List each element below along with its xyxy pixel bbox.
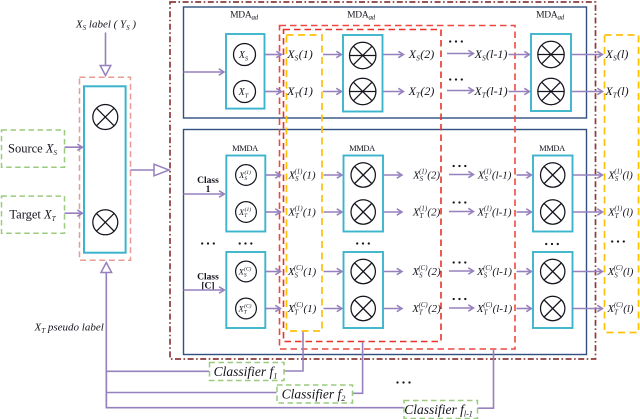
- otimes-bar operator row2: [538, 78, 564, 104]
- otimes-bar operator row1: [538, 41, 564, 67]
- arrow dots: [449, 174, 472, 176]
- svg-text:MMDA: MMDA: [232, 143, 259, 153]
- arrow to Xt(l): [571, 91, 601, 93]
- classifier f2 box: [277, 385, 353, 403]
- ellipsis: [453, 298, 455, 300]
- arrow into MMDA layer2: [324, 271, 341, 273]
- arrow to Xt(2): [383, 91, 402, 93]
- svg-text:Classifier f2: Classifier f2: [282, 386, 346, 403]
- arrow into MDA input box: [184, 71, 223, 73]
- arrow into MMDA layer-l: [517, 174, 531, 176]
- ellipsis row2: [449, 78, 451, 80]
- arrow into MMDA layer2: [324, 211, 341, 213]
- MMDA class input box: [226, 252, 265, 328]
- arrow dots to Xt(l-1): [447, 90, 472, 92]
- arrow into MMDA layer-l: [517, 211, 531, 213]
- arrow to Xt^(c)(2): [384, 308, 401, 310]
- arrow Xt(l-1) to MDA layer-l: [509, 91, 529, 93]
- ellipsis between class blocks: [239, 242, 241, 244]
- wire: yellow column down to classifier f1: [302, 332, 304, 371]
- svg-text:MMDA: MMDA: [349, 143, 376, 153]
- wire: classifier f2 to feedback bus: [106, 392, 277, 394]
- arrow: joint block to network: [130, 169, 154, 171]
- green dashed box: Target Xt: [2, 196, 65, 233]
- svg-text:XS(l): XS(l): [605, 47, 629, 62]
- arrow into MMDA layer-l: [517, 271, 531, 273]
- ellipsis between class blocks: [611, 240, 613, 242]
- red dashed box A (outer, layers 1..l-1): [280, 26, 516, 350]
- arrow dots: [449, 211, 472, 213]
- svg-text:XS(l-1): XS(l-1): [474, 47, 508, 62]
- ellipsis: [453, 261, 455, 263]
- MDA_ad layer-l box U3: [531, 34, 571, 111]
- arrow to Xs(l): [571, 54, 601, 56]
- green dashed box: Source Xs: [2, 130, 65, 167]
- otimes operator: [351, 200, 375, 224]
- MMDA layer-l box: [533, 252, 573, 328]
- svg-text:XS(C)(l-1): XS(C)(l-1): [476, 265, 512, 280]
- MDA_ad input box U1: [226, 34, 265, 109]
- otimes-bar operator row2: [350, 78, 376, 104]
- svg-text:XT(l-1): XT(l-1): [473, 84, 507, 99]
- arrow to Xs^(c)(2): [384, 174, 401, 176]
- arrow: target into joint block: [65, 212, 82, 214]
- otimes operator: [541, 296, 565, 320]
- arrow dots to Xs(l-1): [447, 53, 472, 55]
- MMDA class input box: [226, 156, 265, 232]
- ellipsis between classifiers: [396, 381, 398, 383]
- classifier fl-1 box: [404, 401, 478, 419]
- MDA_ad top sub-network box: [184, 7, 587, 118]
- ellipsis between class blocks: [356, 242, 358, 244]
- MMDA layer-l box: [533, 156, 573, 232]
- arrow into MMDA layer-l: [517, 308, 531, 310]
- svg-text:XS(1)(l-1): XS(1)(l-1): [477, 168, 512, 183]
- arrow class into input box: [184, 193, 223, 195]
- arrow: source into joint block: [65, 146, 82, 148]
- ellipsis between class blocks: [201, 242, 203, 244]
- svg-text:Classifier f1: Classifier f1: [214, 364, 278, 381]
- svg-text:XS(1): XS(1): [286, 47, 312, 62]
- arrow dots: [449, 270, 472, 272]
- outer dash-dot frame (adversarial domain box): [170, 2, 596, 359]
- svg-text:Source XS: Source XS: [8, 142, 57, 157]
- svg-text:XT(1)(l-1): XT(1)(l-1): [476, 205, 512, 220]
- otimes-bar operator row1: [350, 42, 376, 68]
- svg-text:Target XT: Target XT: [9, 208, 56, 223]
- svg-text:MMDA: MMDA: [539, 143, 566, 153]
- svg-text:XT(l): XT(l): [604, 84, 628, 99]
- arrow Xs(1) to MDA layer2: [323, 54, 340, 56]
- otimes operator: [351, 163, 375, 187]
- yellow dashed box: first-layer outputs column: [287, 35, 323, 331]
- svg-text:XT(2): XT(2): [408, 84, 435, 99]
- arrow to Xt^(c)(l): [573, 211, 601, 213]
- arrow Xs to Xs(1): [265, 54, 280, 56]
- node Xs circle: [234, 44, 256, 66]
- arrow to Xt^(c)(1): [266, 211, 280, 213]
- arrow Xs(l-1) to MDA layer-l: [509, 54, 529, 56]
- otimes operator (target): [93, 210, 118, 235]
- node Xs class circle: [236, 165, 257, 186]
- salmon dashed box around joint block: [80, 77, 131, 260]
- otimes operator: [351, 259, 375, 283]
- wire: classifier fl-1 to feedback bus: [106, 407, 404, 409]
- node Xt circle: [234, 81, 256, 103]
- arrow to Xt^(c)(l): [573, 308, 601, 310]
- otimes operator (source): [93, 105, 118, 130]
- node Xt class circle: [236, 202, 257, 223]
- arrow Xt(1) to MDA layer2: [323, 91, 340, 93]
- wire: classifier f1 to feedback bus: [106, 370, 209, 372]
- arrow into MMDA layer2: [324, 174, 341, 176]
- arrow to Xt^(c)(1): [266, 308, 280, 310]
- arrow to Xs(2): [383, 54, 402, 56]
- wire: red box A down to classifier fl-1: [493, 350, 495, 408]
- arrow: label down into joint block: [105, 33, 107, 66]
- MMDA layer-2 box: [344, 252, 384, 328]
- red dashed box B (inner, layer-2 blocks): [284, 30, 442, 342]
- arrow dots: [449, 307, 472, 309]
- arrow class into input box: [184, 289, 223, 291]
- arrow to Xs^(c)(l): [573, 174, 601, 176]
- otimes operator: [351, 296, 375, 320]
- wire: feedback bus vertical: [105, 371, 107, 409]
- svg-text:XS(2): XS(2): [408, 47, 434, 62]
- arrow: pseudo label up into joint block: [105, 273, 107, 409]
- arrow to Xs^(c)(1): [266, 174, 280, 176]
- svg-text:XT(1): XT(1): [286, 84, 313, 99]
- ellipsis: [453, 165, 455, 167]
- node Xs class circle: [236, 261, 257, 282]
- ellipsis row1: [449, 40, 451, 42]
- yellow dashed box: final-layer outputs column: [605, 35, 639, 333]
- MMDA layer-2 box: [344, 156, 384, 232]
- otimes operator: [541, 200, 565, 224]
- arrow to Xt^(c)(2): [384, 211, 401, 213]
- arrow into MMDA layer2: [324, 308, 341, 310]
- svg-text:Classifier fl-1: Classifier fl-1: [404, 402, 473, 419]
- arrow Xt to Xt(1): [265, 91, 280, 93]
- svg-text:XT(C)(l-1): XT(C)(l-1): [476, 302, 513, 317]
- otimes operator: [541, 259, 565, 283]
- MMDA bottom sub-network box: [184, 130, 587, 355]
- node Xt class circle: [236, 298, 257, 319]
- ellipsis between class blocks: [545, 243, 547, 245]
- joint input block (tall cyan box): [84, 86, 126, 252]
- otimes operator: [541, 163, 565, 187]
- arrow to Xs^(c)(l): [573, 271, 601, 273]
- ellipsis: [453, 201, 455, 203]
- MDA_ad layer-2 box U2: [343, 35, 383, 112]
- arrow to Xs^(c)(2): [384, 271, 401, 273]
- arrow to Xs^(c)(1): [266, 271, 280, 273]
- classifier f1 box: [210, 363, 285, 381]
- wire: red box B down to classifier f2: [362, 342, 364, 392]
